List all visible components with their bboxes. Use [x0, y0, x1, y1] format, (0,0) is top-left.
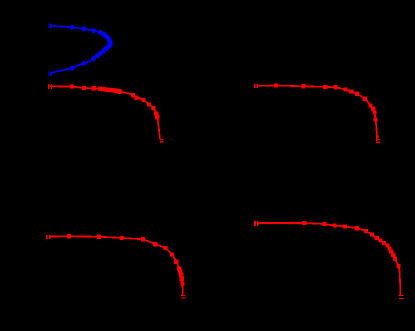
- red series 3: line: [51, 236, 183, 295]
- red series 2: line: [258, 86, 377, 142]
- red series 1: y-error bar caps at bottom end: [160, 139, 164, 143]
- blue series upper: circle markers: [70, 25, 113, 46]
- blue series lower: circle markers: [70, 42, 113, 70]
- red series 4: y-error bar caps at bottom end: [399, 295, 404, 299]
- blue series upper: line: [50, 26, 110, 44]
- red series 1: square markers: [70, 85, 159, 120]
- red series 4: square markers: [302, 221, 400, 268]
- red series 1: line: [50, 86, 160, 139]
- red series 2: y-error bar caps at bottom end: [375, 139, 380, 143]
- red series 3: square markers: [67, 234, 185, 285]
- red series 4 (bottom-right): x-error bar caps at left end: [254, 221, 258, 226]
- red series 3: y-error bar caps at bottom end: [181, 295, 185, 299]
- red series 3 (bottom-left): x-error bar caps at left end: [46, 235, 51, 239]
- blue series lower: line: [50, 45, 110, 74]
- red series 2: square markers: [274, 83, 379, 137]
- red series 1 (top-left): x-error bar caps at left end: [48, 84, 52, 89]
- blue series upper: x-error bar caps at left end: [48, 23, 52, 28]
- blue series lower: x-error bar caps at left end: [48, 71, 52, 76]
- red series 2 (top-right): x-error bar caps at left end: [254, 84, 258, 88]
- red series 4: line: [259, 223, 401, 296]
